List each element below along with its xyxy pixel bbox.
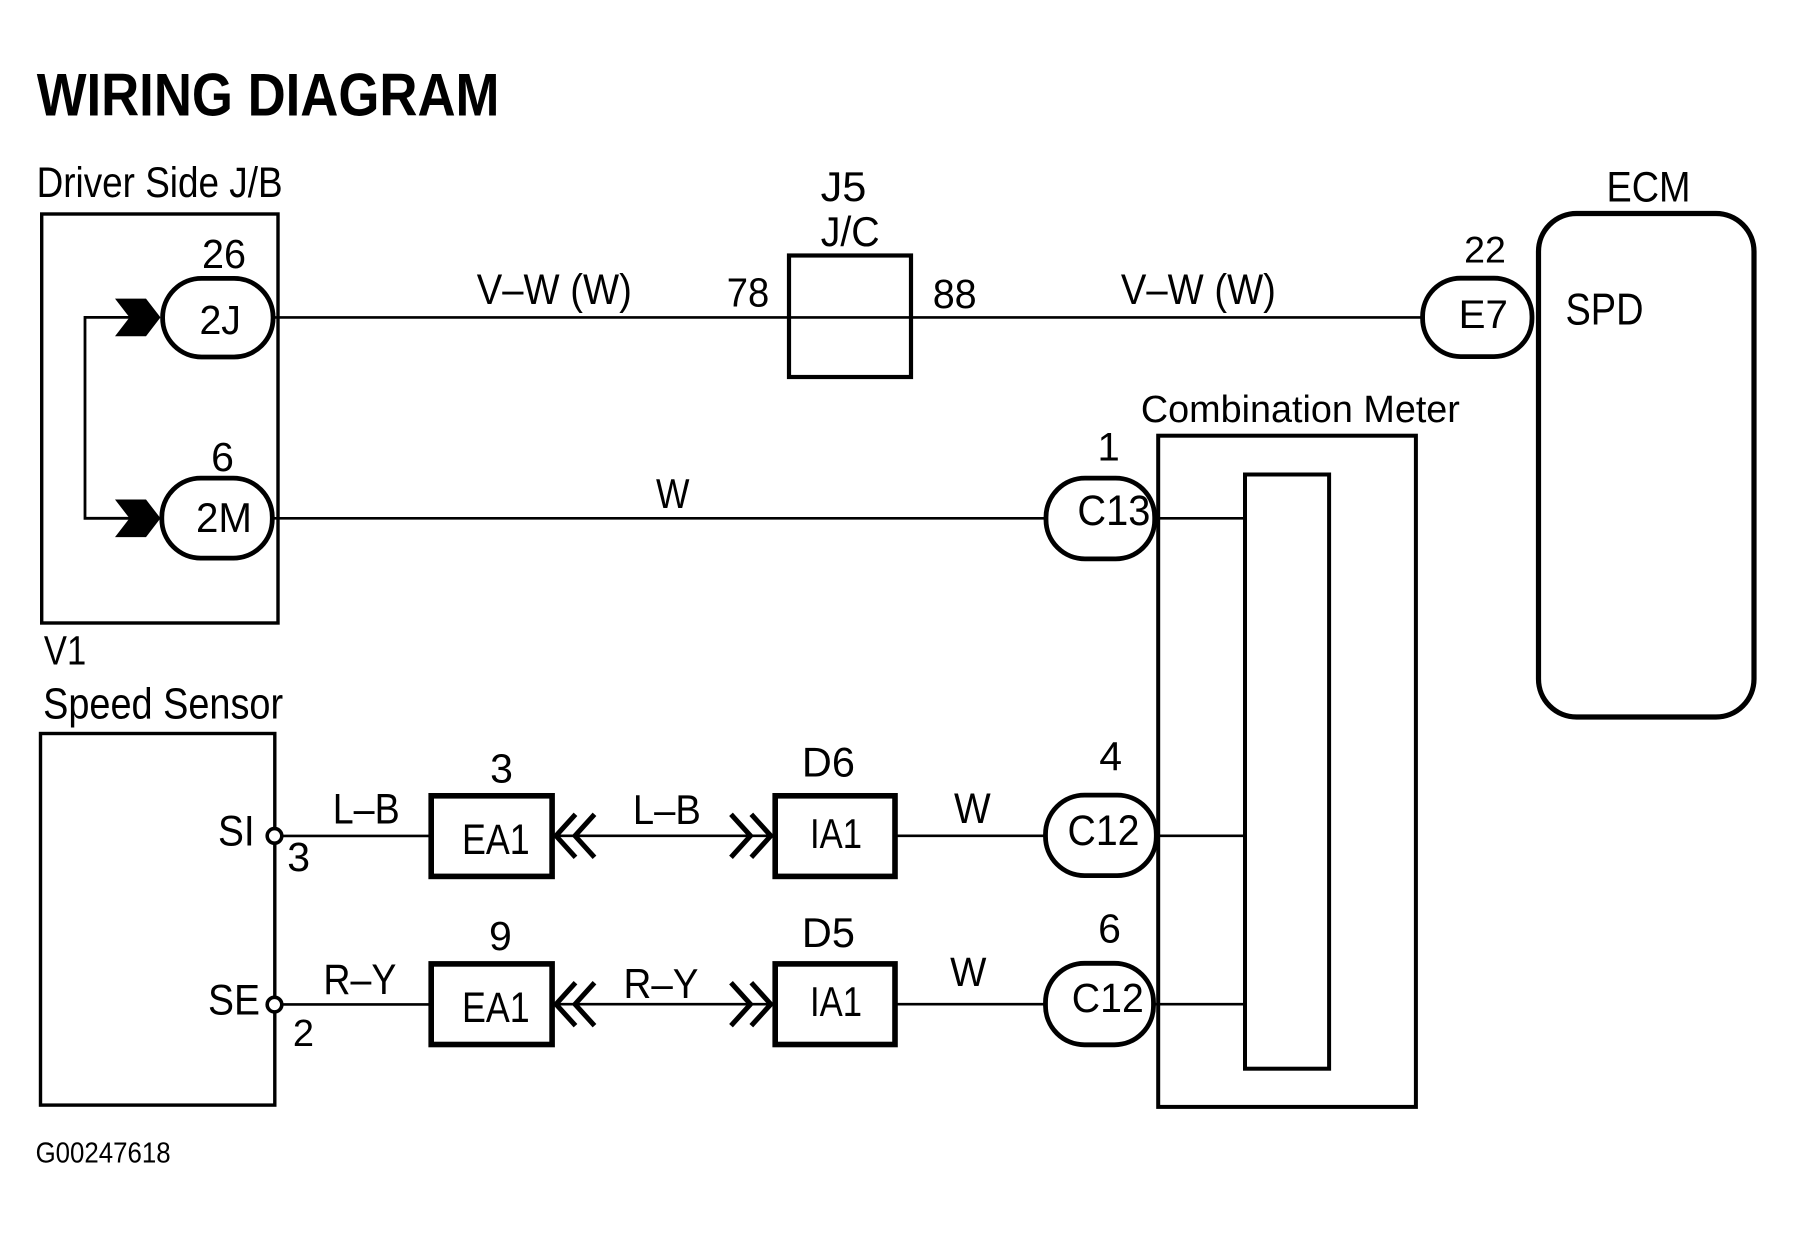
svg-text:26: 26 bbox=[202, 231, 246, 277]
svg-text:J5: J5 bbox=[821, 163, 867, 210]
svg-text:C12: C12 bbox=[1068, 807, 1140, 855]
svg-text:SI: SI bbox=[218, 808, 255, 856]
svg-text:R–Y: R–Y bbox=[624, 960, 699, 1007]
svg-text:2M: 2M bbox=[196, 494, 252, 541]
svg-text:C13: C13 bbox=[1077, 487, 1150, 535]
svg-text:D5: D5 bbox=[802, 909, 855, 956]
svg-text:SPD: SPD bbox=[1566, 285, 1644, 335]
svg-text:EA1: EA1 bbox=[462, 816, 530, 864]
svg-text:78: 78 bbox=[727, 270, 770, 316]
svg-text:SE: SE bbox=[208, 977, 260, 1025]
svg-text:2J: 2J bbox=[199, 297, 241, 343]
svg-text:G00247618: G00247618 bbox=[36, 1137, 171, 1169]
svg-text:3: 3 bbox=[287, 834, 310, 880]
svg-text:6: 6 bbox=[211, 434, 234, 480]
svg-text:EA1: EA1 bbox=[462, 984, 530, 1032]
svg-text:9: 9 bbox=[489, 913, 512, 959]
svg-text:W: W bbox=[954, 785, 991, 832]
svg-text:3: 3 bbox=[490, 746, 513, 792]
svg-text:W: W bbox=[656, 470, 690, 517]
svg-text:V1: V1 bbox=[44, 628, 86, 674]
svg-text:Driver Side J/B: Driver Side J/B bbox=[37, 159, 283, 207]
svg-text:6: 6 bbox=[1098, 905, 1121, 951]
svg-text:W: W bbox=[950, 949, 987, 995]
svg-text:J/C: J/C bbox=[821, 208, 880, 255]
svg-text:V–W (W): V–W (W) bbox=[477, 267, 632, 314]
svg-text:Combination Meter: Combination Meter bbox=[1141, 389, 1460, 431]
svg-text:ECM: ECM bbox=[1607, 164, 1691, 212]
svg-text:Speed Sensor: Speed Sensor bbox=[43, 681, 283, 729]
svg-text:L–B: L–B bbox=[633, 786, 701, 833]
svg-text:2: 2 bbox=[293, 1013, 314, 1055]
svg-text:IA1: IA1 bbox=[810, 810, 862, 857]
svg-text:D6: D6 bbox=[802, 739, 855, 786]
svg-text:IA1: IA1 bbox=[810, 978, 862, 1025]
svg-text:L–B: L–B bbox=[333, 786, 400, 834]
svg-text:R–Y: R–Y bbox=[323, 956, 396, 1004]
svg-text:V–W (W): V–W (W) bbox=[1121, 267, 1276, 314]
svg-text:4: 4 bbox=[1099, 734, 1122, 780]
svg-text:E7: E7 bbox=[1459, 292, 1508, 337]
svg-text:1: 1 bbox=[1097, 426, 1119, 470]
svg-text:WIRING DIAGRAM: WIRING DIAGRAM bbox=[37, 62, 500, 129]
svg-text:C12: C12 bbox=[1072, 975, 1144, 1021]
svg-text:22: 22 bbox=[1464, 229, 1506, 271]
svg-text:88: 88 bbox=[933, 271, 977, 317]
